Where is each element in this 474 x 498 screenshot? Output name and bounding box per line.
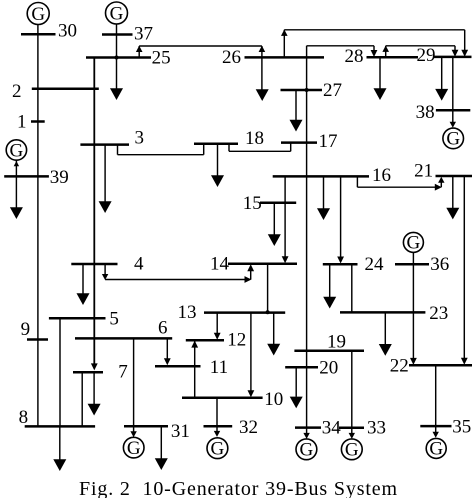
bus 7 [73, 371, 103, 374]
bus 39 [4, 175, 49, 178]
arrow down at bus 22 end of 22-23 [410, 358, 417, 365]
svg-text:21: 21 [414, 161, 433, 182]
bus 8 [25, 425, 95, 428]
arrow down at G35 [433, 432, 439, 438]
generator G35 circle [426, 438, 446, 458]
wire line 17-18 horizontal [229, 150, 291, 152]
svg-text:1: 1 [17, 112, 27, 133]
wire line 16-21 drop at bus 16 [356, 176, 358, 187]
bus 31 [124, 425, 168, 428]
generator G38 circle [443, 128, 464, 149]
wire bus38 to G38 stub [452, 110, 454, 124]
load arrow bus 15 [273, 203, 275, 235]
wire line 17-18 riser at bus 17 [290, 143, 292, 152]
svg-text:5: 5 [109, 309, 119, 330]
bus 36 [395, 263, 429, 266]
bus 33 [339, 426, 364, 429]
bus 37 [102, 33, 133, 36]
bus 27 [281, 89, 323, 92]
bus 19 [294, 350, 364, 353]
wire line 3-18 riser at bus 3 [117, 145, 119, 155]
svg-text:31: 31 [171, 421, 190, 442]
wire bus33 to G33 stub [351, 428, 353, 436]
load arrow bus 7 [93, 372, 95, 404]
svg-text:G: G [300, 440, 314, 461]
bus 22 [409, 364, 472, 367]
junction dot bus 13 [266, 310, 270, 314]
bus 11 [155, 365, 201, 368]
wire line 28-29 riser at bus 28 [385, 46, 387, 57]
arrow down at G32 [214, 431, 220, 437]
load arrow bus 26 head [256, 89, 269, 101]
load arrow bus 20 [295, 367, 297, 397]
svg-text:32: 32 [239, 417, 258, 438]
generator G33 circle [341, 439, 362, 460]
arrow up at bus 21 riser top [438, 177, 444, 183]
generator G37 circle [106, 2, 128, 24]
wire line 26-29 horizontal [284, 29, 464, 31]
svg-text:27: 27 [323, 80, 342, 101]
svg-text:3: 3 [135, 128, 145, 149]
svg-text:8: 8 [19, 407, 29, 428]
svg-text:13: 13 [178, 302, 197, 323]
wire G37 stem and line 37-25 [116, 24, 118, 58]
wire line 4-14 riser at bus 14 [250, 266, 252, 280]
svg-text:19: 19 [327, 331, 346, 352]
arrow right at bus 21 end of 16-21 [435, 184, 442, 191]
svg-text:17: 17 [319, 131, 338, 152]
arrow down at G38 [450, 122, 456, 128]
svg-text:G: G [10, 140, 24, 161]
svg-text:G: G [127, 438, 141, 459]
wire line 4-14 horizontal [105, 279, 248, 281]
wire G30-30-2-1-39-9-8 long left vertical [37, 24, 39, 426]
svg-text:14: 14 [210, 254, 230, 275]
bus 29 [433, 56, 472, 59]
wire bus34 to G34 stub [306, 428, 308, 436]
junction dot bus25/line37 [115, 56, 119, 60]
wire line 22-35 vertical [435, 365, 437, 426]
svg-text:G: G [31, 4, 45, 25]
load arrow bus 25 [116, 58, 118, 90]
bus 5 [49, 317, 106, 320]
generator G39 circle [6, 140, 26, 160]
svg-text:28: 28 [345, 46, 364, 67]
load arrow bus 18 [217, 144, 219, 176]
bus 38 [436, 109, 470, 112]
generator G30 circle [27, 3, 49, 25]
svg-text:G: G [110, 4, 124, 25]
wire line 3-18 riser at bus 18 [203, 144, 205, 155]
wire line 25-26 drop at bus 26 + load shaft bus 26 [261, 46, 263, 90]
bus 9 [27, 338, 48, 341]
wire line 29-38 vertical [452, 57, 454, 110]
arrow down at G31 [130, 431, 136, 437]
svg-text:29: 29 [417, 45, 436, 66]
svg-text:22: 22 [390, 355, 409, 376]
wire line 25-26 riser at bus 25 [138, 46, 140, 58]
load arrow bus 28 [379, 57, 381, 89]
wire line 12-13 vertical [216, 313, 218, 334]
bus 6 [75, 337, 172, 340]
svg-text:16: 16 [372, 165, 391, 186]
arrow up at G39 [14, 161, 19, 166]
generator G32 circle [207, 438, 228, 459]
wire line 28-29 horizontal [386, 45, 455, 47]
arrow up at 26 drop top [259, 46, 266, 52]
svg-text:10: 10 [264, 389, 283, 410]
wire line 6-11 vertical [166, 338, 168, 359]
load arrow bus 4 [82, 264, 84, 294]
svg-text:7: 7 [118, 362, 128, 383]
wire bus32 to G32 stub [216, 426, 218, 433]
svg-text:36: 36 [430, 254, 449, 275]
wire line 28-29 drop at bus 29 [454, 46, 456, 51]
wire line 26-28 horizontal [307, 45, 374, 47]
bus 18 [194, 143, 238, 146]
bus 2 [32, 87, 99, 90]
bus 24 [323, 263, 358, 266]
svg-text:33: 33 [367, 418, 386, 439]
bus 20 [285, 366, 318, 369]
svg-text:15: 15 [243, 193, 262, 214]
load arrow bus 8 [59, 426, 61, 459]
wire line 5-8 vertical [59, 318, 61, 426]
svg-text:11: 11 [210, 357, 228, 378]
svg-text:4: 4 [134, 254, 144, 275]
wire line 26-29 drop at bus 29 [464, 30, 466, 51]
wire line 10-32 vertical [216, 398, 218, 427]
junction dot bus 27 [305, 88, 309, 92]
bus 26 [245, 56, 325, 59]
wire line 6-31 vertical [133, 338, 135, 426]
generator G34 circle [296, 439, 317, 460]
bus 30 [21, 33, 56, 36]
bus 21 [436, 175, 473, 178]
svg-text:30: 30 [58, 21, 77, 42]
arrow right at 4-14 elbow east [245, 276, 252, 283]
arrow down at bus 29 end of 28-29 [452, 50, 459, 57]
wire line 21-22 vertical [463, 176, 465, 359]
svg-text:34: 34 [322, 418, 342, 439]
svg-text:G: G [345, 440, 359, 461]
arrow down at bus 10 end of 10-13 [248, 390, 255, 397]
arrow down at G34 [303, 433, 309, 439]
bus 34 [295, 426, 321, 429]
svg-text:G: G [446, 129, 460, 150]
load arrow bus 24 [329, 264, 331, 297]
wire line 26-28 drop at bus 28 [373, 46, 375, 52]
wire line 7-8 vertical [81, 372, 83, 426]
bus 13 [204, 311, 285, 314]
wire bus31 to G31 stub [133, 426, 135, 434]
arrow down at bus 28 end of 26-28 [371, 50, 378, 57]
load arrow bus 39 [15, 176, 17, 207]
bus 10 [182, 396, 263, 399]
wire line 25-2-3-4-5-6 long vertical [93, 58, 95, 365]
svg-text:37: 37 [134, 24, 153, 45]
wire line 25-26 horizontal [139, 45, 262, 47]
arrow up at 26-29 riser top [281, 30, 288, 36]
wire line 16-15-14 vertical [284, 176, 286, 257]
arrow up at bus 12 end of 11-12 [191, 341, 198, 348]
wire line 26-29 riser at bus 26 [283, 30, 285, 58]
bus 23 [340, 311, 425, 314]
svg-text:20: 20 [319, 358, 338, 379]
wire line 13-14 vertical [267, 264, 269, 313]
svg-text:24: 24 [365, 254, 385, 275]
arrow down at bus 22 end of 21-22 [461, 358, 468, 365]
wire line 16-24 vertical [340, 176, 342, 258]
bus 16 [273, 175, 369, 178]
wire line G36-36-23-22 vertical [412, 252, 414, 359]
wire line 3-18 horizontal [118, 154, 204, 156]
svg-text:G: G [429, 439, 443, 460]
bus 32 [204, 425, 233, 428]
wire bus35 to G35 stub [435, 426, 437, 434]
arrow down at bus 11 end of 6-11 [164, 358, 171, 365]
arrow down at bus 14 end of 14-15 [282, 256, 289, 263]
wire line 12-11-10 vertical [194, 341, 196, 398]
wire line 19-33 vertical [351, 351, 353, 428]
arrow down at 4-14 elbow [102, 274, 108, 280]
svg-text:9: 9 [21, 319, 31, 340]
bus 4 [71, 263, 117, 266]
load arrow bus 31 [160, 426, 162, 458]
generator G36 circle [403, 232, 423, 252]
wire line 4-14 drop at bus 4 [104, 264, 106, 276]
wire line 16-21 horizontal [357, 186, 438, 188]
svg-text:23: 23 [429, 303, 448, 324]
arrow down at bus 24 end of 16-24 [337, 257, 344, 264]
bus 28 [367, 56, 419, 59]
load arrow bus 3 [104, 145, 106, 202]
svg-text:2: 2 [12, 81, 22, 102]
bus 17 [281, 141, 317, 144]
svg-text:35: 35 [452, 417, 471, 438]
load arrow bus 16 [323, 176, 325, 208]
svg-text:18: 18 [245, 128, 264, 149]
arrow up at 25-26 riser top [136, 46, 143, 52]
arrow down at bus 7 end of 6-7 [91, 363, 98, 370]
svg-text:12: 12 [227, 330, 246, 351]
wire line 10-13 vertical [250, 313, 252, 392]
svg-text:G: G [211, 439, 225, 460]
svg-text:25: 25 [152, 48, 171, 69]
generator G31 circle [123, 437, 144, 458]
svg-text:26: 26 [222, 47, 241, 68]
bus 12 [186, 339, 224, 342]
bus 1 [31, 120, 45, 123]
svg-text:6: 6 [158, 318, 168, 339]
arrow down at G33 [349, 433, 355, 439]
load arrow bus 21 [452, 176, 454, 208]
arrow up at bus 14 end of 4-14 [247, 264, 254, 271]
load arrow bus 29 [441, 57, 443, 90]
bus 3 [80, 143, 129, 146]
bus 14 [228, 262, 297, 265]
svg-text:38: 38 [416, 102, 435, 123]
bus 25 [86, 56, 151, 59]
arrow up at 28-29 riser top [382, 46, 389, 52]
arrow down at bus 29 end of 26-29 [461, 50, 468, 57]
wire line 16-21 riser at bus 21 [440, 178, 442, 187]
load arrow bus 23 [384, 312, 386, 344]
load arrow bus 27 [295, 90, 297, 121]
wire line 23-24 vertical [351, 264, 353, 312]
svg-text:Fig. 2 10-Generator 39-Bus Sy: Fig. 2 10-Generator 39-Bus System [79, 478, 398, 498]
svg-text:G: G [407, 233, 421, 254]
load arrow bus 13 [273, 313, 275, 344]
wire G39 stem [15, 161, 17, 177]
svg-text:39: 39 [50, 167, 69, 188]
bus 15 [260, 202, 296, 205]
arrow down at bus 12 end of 12-13 [214, 333, 221, 340]
wire line 17-18 riser at bus 18 [228, 144, 230, 152]
bus 35 [420, 425, 451, 428]
wire line 26-27-17-16-19-20-34 long vertical [306, 46, 308, 428]
